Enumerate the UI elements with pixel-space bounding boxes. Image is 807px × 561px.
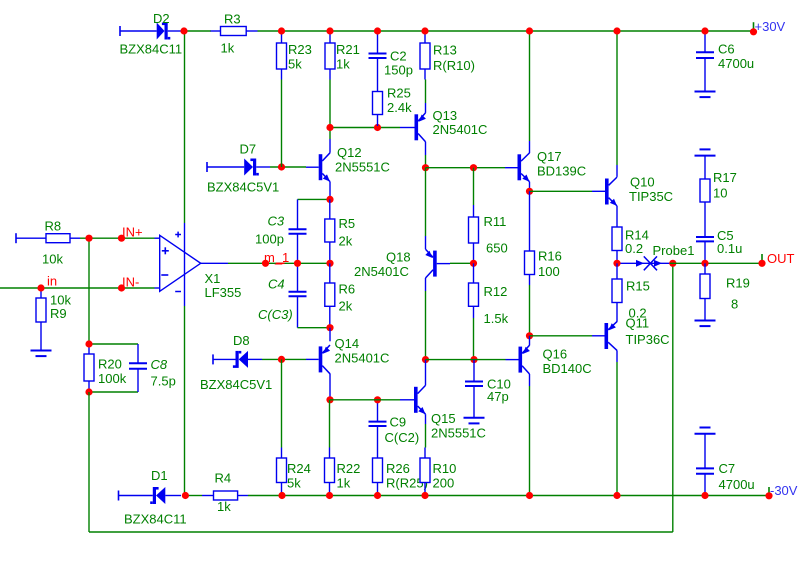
- node R12 C10 Q16b: [470, 356, 477, 363]
- wire -30V rail long segment: [248, 495, 766, 497]
- wire Q16 base lead: [506, 359, 519, 361]
- svg-text:Q15: Q15: [431, 411, 456, 426]
- svg-text:1k: 1k: [221, 41, 235, 56]
- probe Probe1: [621, 243, 695, 270]
- wire Q14 collector lead: [329, 374, 331, 400]
- transistor Q18 2N5401C: [354, 249, 450, 279]
- svg-text:2N5401C: 2N5401C: [433, 122, 488, 137]
- node R23 rail: [278, 27, 285, 34]
- svg-text:8: 8: [731, 297, 738, 312]
- svg-text:2N5551C: 2N5551C: [335, 160, 390, 175]
- svg-text:1k: 1k: [337, 476, 351, 491]
- op-amp X1 LF355: [160, 223, 242, 306]
- node R20 bottom: [85, 388, 92, 395]
- resistor R11 650: [469, 205, 508, 263]
- resistor R23 5k: [277, 33, 312, 80]
- wire Q17e to Q10b: [530, 190, 593, 192]
- node R21 rail: [326, 27, 333, 34]
- node IN- pin: [118, 284, 125, 291]
- node C6 rail: [701, 27, 708, 34]
- svg-text:in: in: [47, 274, 57, 289]
- wire Q15 collector lead: [425, 360, 427, 386]
- svg-text:C8: C8: [151, 357, 168, 372]
- terminal OUT tick: [761, 254, 763, 261]
- svg-text:Q16: Q16: [543, 347, 568, 362]
- diode D8 BZX84C5V1: [200, 333, 272, 392]
- transistor Q12 2N5551C: [306, 145, 390, 182]
- wire D8 to R24: [281, 359, 283, 447]
- transistor Q17 BD139C: [518, 149, 587, 182]
- svg-text:2N5551C: 2N5551C: [431, 426, 486, 441]
- node R21 Q12c: [326, 124, 333, 131]
- node C7 rail: [701, 492, 708, 499]
- wire Q10 collector lead: [616, 165, 618, 177]
- capacitor C2 150p: [369, 33, 413, 92]
- svg-text:R11: R11: [484, 214, 507, 229]
- svg-text:2.4k: 2.4k: [387, 100, 412, 115]
- node Q14c R22 C9: [326, 396, 333, 403]
- wire line360 left: [426, 359, 475, 361]
- svg-text:LF355: LF355: [205, 285, 242, 300]
- svg-text:0.2: 0.2: [625, 241, 643, 256]
- svg-text:BZX84C5V1: BZX84C5V1: [200, 377, 272, 392]
- svg-text:m_1: m_1: [264, 250, 289, 265]
- resistor R6 2k: [325, 263, 355, 327]
- wire Q10 base lead: [592, 190, 605, 192]
- node D7 R23: [278, 163, 285, 170]
- node Q12e R5 C3: [326, 196, 333, 203]
- diode D7 BZX84C5V1: [207, 142, 279, 195]
- node m_1 pin: [262, 260, 269, 267]
- wire Q17 collector up: [529, 31, 531, 141]
- node R20 top: [85, 340, 92, 347]
- svg-text:C(C2): C(C2): [385, 430, 420, 445]
- wire top rail left segment: [186, 30, 211, 32]
- node +30V terminal: [750, 28, 757, 35]
- svg-text:C6: C6: [718, 42, 735, 57]
- wire Q12c to Q13b: [330, 127, 400, 129]
- transistor Q13 2N5401C: [415, 108, 488, 142]
- svg-text:Q13: Q13: [433, 108, 458, 123]
- wire Q11 base lead: [592, 335, 605, 337]
- node m_1 red overlay: [276, 262, 285, 264]
- node R11 top: [470, 164, 477, 171]
- node Q11c rail: [613, 492, 620, 499]
- svg-text:1k: 1k: [336, 57, 350, 72]
- svg-text:10k: 10k: [42, 252, 63, 267]
- svg-text:650: 650: [486, 241, 508, 256]
- wire Q17 base lead: [505, 167, 518, 169]
- node C9 R26 line: [374, 396, 381, 403]
- svg-text:Q14: Q14: [335, 336, 360, 351]
- svg-text:R15: R15: [626, 279, 650, 294]
- resistor R3 1k: [211, 12, 258, 56]
- wire Q11c to rail: [616, 362, 618, 496]
- node V+ rail: [180, 27, 187, 34]
- wire Q10 collector up: [616, 31, 618, 165]
- ground C7 top inverted: [695, 428, 716, 434]
- svg-text:D7: D7: [240, 142, 257, 157]
- svg-text:D2: D2: [153, 11, 170, 26]
- svg-text:200: 200: [433, 476, 455, 491]
- svg-text:C3: C3: [268, 214, 285, 229]
- svg-text:Q10: Q10: [630, 175, 655, 190]
- svg-text:R22: R22: [337, 461, 361, 476]
- terminal -30V tick: [768, 487, 770, 494]
- node in pin R9 junction: [37, 284, 44, 291]
- svg-text:47p: 47p: [487, 389, 509, 404]
- wire line360 right: [474, 359, 506, 361]
- svg-text:Q18: Q18: [386, 250, 411, 265]
- wire V- supply: [184, 306, 186, 496]
- node R6 Q14e C4: [326, 324, 333, 331]
- resistor R16 100: [525, 191, 562, 285]
- capacitor C6 4700u: [696, 32, 754, 92]
- wire IN+ line: [80, 237, 155, 239]
- capacitor C10 47p: [465, 360, 511, 418]
- svg-text:R24: R24: [287, 461, 311, 476]
- wire R23 to D7: [281, 80, 283, 168]
- wire +30V rail segment: [258, 30, 752, 32]
- wire Q13c line to Q17b: [426, 167, 506, 169]
- svg-text:Q12: Q12: [337, 145, 362, 160]
- wire D7 to Q12 base: [270, 166, 306, 168]
- node Q18c Q15c line: [422, 356, 429, 363]
- svg-text:100: 100: [538, 264, 560, 279]
- resistor R25 2.4k: [373, 86, 413, 127]
- node OUT terminal: [758, 260, 765, 267]
- svg-text:5k: 5k: [288, 57, 302, 72]
- node Q10c rail: [613, 27, 620, 34]
- wire IN+ opamp stub: [155, 237, 161, 239]
- svg-text:2k: 2k: [339, 299, 353, 314]
- wire Q14 emitter lead: [329, 328, 331, 342]
- wire Q14c line: [330, 399, 400, 401]
- wire R20 loop top: [89, 343, 138, 345]
- node C5 R19 out: [701, 260, 708, 267]
- svg-text:BD139C: BD139C: [537, 164, 586, 179]
- wire Q16 emitter lead: [529, 336, 531, 346]
- resistor R4 1k: [202, 471, 248, 515]
- node R13 rail: [421, 27, 428, 34]
- node R8-feedback junction: [85, 235, 92, 242]
- wire feedback left vertical: [88, 392, 90, 532]
- resistor R17 10: [700, 156, 737, 237]
- svg-text:7.5p: 7.5p: [151, 374, 176, 389]
- node R14 R15 probe: [613, 260, 620, 267]
- wire Q17 collector lead: [529, 141, 531, 153]
- svg-text:BZX84C11: BZX84C11: [120, 42, 183, 57]
- svg-text:Q11: Q11: [626, 316, 650, 331]
- svg-text:10: 10: [713, 186, 727, 201]
- wire Q15e to R10: [425, 424, 427, 448]
- ground C6: [695, 92, 716, 98]
- svg-text:R16: R16: [538, 249, 562, 264]
- node R24 rail: [278, 492, 285, 499]
- svg-text:4700u: 4700u: [718, 56, 754, 71]
- svg-text:5k: 5k: [287, 476, 301, 491]
- node Q16c rail: [526, 492, 533, 499]
- svg-text:150p: 150p: [384, 63, 413, 78]
- node Q17e R16 Q10b: [526, 188, 533, 195]
- svg-text:R(R10): R(R10): [433, 58, 475, 73]
- svg-text:BD140C: BD140C: [543, 361, 592, 376]
- node -30V terminal: [765, 492, 772, 499]
- resistor R22 1k: [325, 448, 361, 494]
- resistor R8 10k: [16, 219, 80, 267]
- svg-text:2N5401C: 2N5401C: [354, 264, 409, 279]
- wire Q16e to Q11b: [530, 335, 593, 337]
- svg-text:R25: R25: [387, 86, 411, 101]
- wire R20 loop bottom: [89, 391, 138, 393]
- terminal +30V tick: [753, 22, 755, 29]
- svg-text:-30V: -30V: [770, 483, 798, 498]
- node R16 Q16e Q11b: [526, 332, 533, 339]
- svg-text:TIP35C: TIP35C: [629, 189, 673, 204]
- wire Q13 collector lead: [425, 142, 427, 155]
- terminal input R8: [15, 233, 17, 243]
- svg-text:R21: R21: [336, 42, 360, 57]
- wire in line: [0, 287, 155, 289]
- node R22 rail: [326, 492, 333, 499]
- wire probe to C5 node: [670, 262, 759, 264]
- node R10 rail: [421, 492, 428, 499]
- ground C10: [464, 418, 485, 424]
- svg-text:X1: X1: [205, 271, 221, 286]
- svg-text:R20: R20: [98, 357, 122, 372]
- wire opamp out to R5 node: [228, 262, 330, 264]
- wire Q18c to Q15c: [425, 291, 427, 360]
- wire Q12e to C3: [298, 198, 331, 200]
- node probe out: [669, 260, 676, 267]
- svg-text:C9: C9: [390, 415, 407, 430]
- wire D8 to Q14 base: [262, 358, 306, 360]
- transistor Q10 TIP35C: [605, 175, 673, 206]
- svg-text:R13: R13: [433, 43, 457, 58]
- resistor R13 R(R10): [420, 33, 475, 80]
- svg-text:R26: R26: [386, 461, 410, 476]
- capacitor C3 100p: [255, 199, 307, 263]
- svg-text:100k: 100k: [98, 371, 127, 386]
- wire Q16 collector lead: [529, 374, 531, 386]
- resistor R10 200: [420, 448, 456, 494]
- svg-text:R3: R3: [224, 12, 241, 27]
- node D8 R24: [278, 356, 285, 363]
- resistor R26: [373, 458, 428, 493]
- svg-text:IN+: IN+: [122, 225, 143, 240]
- svg-text:BZX84C5V1: BZX84C5V1: [207, 180, 279, 195]
- node R25 Q13b: [374, 124, 381, 131]
- resistor R14 0.2: [612, 227, 649, 263]
- node IN+ pin: [118, 235, 125, 242]
- svg-text:R23: R23: [288, 42, 312, 57]
- wire Q15 emitter lead: [425, 414, 427, 424]
- svg-text:R8: R8: [45, 219, 62, 234]
- ground R9: [31, 351, 52, 357]
- transistor Q11 TIP36C: [605, 316, 670, 351]
- resistor R21 1k: [325, 33, 360, 80]
- svg-text:R5: R5: [339, 216, 356, 231]
- capacitor C9: [369, 400, 420, 458]
- svg-text:C2: C2: [390, 49, 407, 64]
- wire -30V rail segment: [188, 495, 202, 497]
- svg-text:R4: R4: [215, 471, 232, 486]
- transistor Q14 2N5401C: [306, 336, 389, 374]
- node V- rail: [182, 492, 189, 499]
- wire IN- opamp stub: [155, 287, 161, 289]
- svg-text:BZX84C11: BZX84C11: [124, 512, 187, 527]
- node R5 R6 m1: [326, 260, 333, 267]
- wire feedback right vertical: [672, 263, 674, 532]
- node R26 rail: [374, 492, 381, 499]
- svg-text:2N5401C: 2N5401C: [335, 351, 390, 366]
- transistor Q16 BD140C: [519, 345, 592, 376]
- svg-text:R6: R6: [339, 282, 356, 297]
- svg-text:IN-: IN-: [122, 275, 139, 290]
- svg-text:C7: C7: [719, 461, 736, 476]
- svg-text:100p: 100p: [255, 232, 284, 247]
- capacitor C5 0.1u: [696, 228, 742, 263]
- svg-text:0.1u: 0.1u: [717, 241, 742, 256]
- capacitor C8 7.5p: [129, 344, 176, 392]
- wire Q13 emitter lead: [425, 103, 427, 113]
- node C2 rail: [374, 27, 381, 34]
- svg-text:C(C3): C(C3): [258, 307, 293, 322]
- svg-text:C4: C4: [268, 277, 285, 292]
- svg-text:D1: D1: [151, 468, 168, 483]
- wire R12 to line360: [473, 318, 475, 360]
- transistor Q15 2N5551C: [400, 385, 486, 440]
- wire Q14c to R22: [329, 400, 331, 448]
- wire Q18 emitter lead: [425, 236, 427, 249]
- diode D1 BZX84C11: [119, 468, 187, 527]
- wire Q16c to rail: [529, 386, 531, 496]
- resistor R24 5k: [277, 448, 311, 494]
- wire Q13 base lead: [400, 127, 415, 129]
- resistor R20 100k: [84, 344, 127, 392]
- ground R17 top inverted: [695, 149, 716, 155]
- svg-text:+30V: +30V: [755, 19, 786, 34]
- capacitor C4: [258, 263, 307, 327]
- wire Q12 collector lead: [329, 139, 331, 153]
- wire R21 to Q12c: [329, 80, 331, 140]
- wire Q17 emitter lead: [529, 182, 531, 192]
- wire R13 to Q13e: [425, 80, 427, 104]
- svg-text:1k: 1k: [217, 499, 231, 514]
- wire Q13c down: [425, 155, 427, 168]
- svg-text:R9: R9: [50, 306, 67, 321]
- wire R16 to Q16e: [529, 285, 531, 336]
- wire C4 to Q14e: [298, 327, 331, 329]
- node R11 R12 Q18b: [470, 260, 477, 267]
- diode D2 BZX84C11: [120, 11, 183, 57]
- resistor R12 1.5k: [469, 263, 509, 326]
- resistor R5 2k: [325, 199, 355, 263]
- wire IN+ to R20 vertical: [88, 238, 90, 344]
- svg-text:R17: R17: [713, 170, 737, 185]
- svg-text:1.5k: 1.5k: [484, 311, 509, 326]
- wire Q10 emitter lead: [616, 206, 618, 227]
- svg-text:R19: R19: [726, 276, 750, 291]
- svg-text:OUT: OUT: [767, 251, 795, 266]
- svg-text:Probe1: Probe1: [653, 243, 695, 258]
- wire Q11 collector lead: [616, 350, 618, 362]
- wire Q18 base to R11R12: [450, 262, 474, 264]
- svg-text:TIP36C: TIP36C: [626, 332, 670, 347]
- resistor R19 8: [700, 263, 750, 320]
- svg-text:2k: 2k: [339, 234, 353, 249]
- node Q17c rail: [526, 27, 533, 34]
- svg-text:R10: R10: [433, 461, 457, 476]
- node C3 m1: [294, 260, 301, 267]
- node Q13c R11 line: [422, 164, 429, 171]
- svg-text:D8: D8: [233, 333, 250, 348]
- capacitor C7 4700u: [696, 434, 755, 496]
- ground R19: [695, 321, 716, 327]
- wire feedback bottom: [89, 531, 673, 533]
- wire Q13c to Q18: [425, 168, 427, 236]
- resistor R15 0.2: [612, 263, 650, 322]
- svg-text:4700u: 4700u: [719, 477, 755, 492]
- svg-text:Q17: Q17: [537, 149, 562, 164]
- wire Q18 collector lead: [425, 278, 427, 291]
- svg-text:R12: R12: [484, 284, 508, 299]
- resistor R9 10k: [36, 289, 71, 351]
- wire R11 top lead: [473, 168, 475, 205]
- wire Q12 emitter lead: [329, 182, 331, 200]
- wire V+ supply: [184, 31, 186, 223]
